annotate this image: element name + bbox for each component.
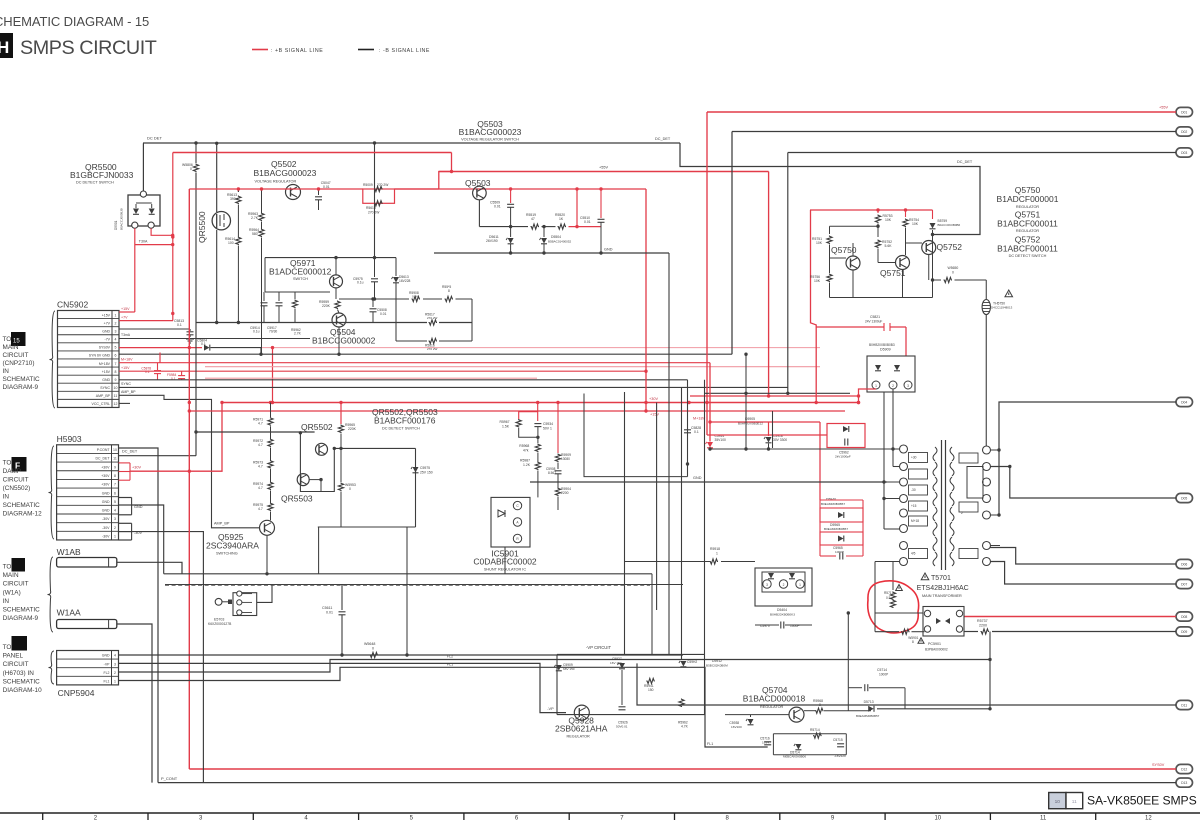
svg-text:TO: TO (3, 644, 12, 651)
svg-text:B1BACG000023: B1BACG000023 (459, 127, 522, 137)
svg-text:M+18V: M+18V (693, 417, 706, 421)
wire (261, 189, 263, 213)
svg-text:GND: GND (693, 476, 702, 480)
wire 573 gnd long (164, 573, 652, 575)
transistor Q5751 (896, 256, 910, 270)
wire red d5909 bottom (859, 389, 877, 403)
wire red C horiz (710, 421, 820, 423)
wire AMP_BP row11 (119, 395, 260, 528)
wire transformer left stubs (893, 448, 900, 450)
svg-text:SYNC: SYNC (121, 382, 131, 386)
resistor R5613 (237, 189, 239, 192)
transformer windings right (950, 447, 954, 461)
svg-text:+55V: +55V (1159, 106, 1168, 110)
wire red top Q5750 (810, 209, 933, 211)
connector oval D12 (1176, 764, 1193, 773)
svg-text:0.1: 0.1 (694, 430, 699, 434)
wire GND 253 (434, 252, 669, 254)
svg-text:D05: D05 (1181, 497, 1187, 501)
wire bridge bottom red left (134, 228, 136, 312)
wire (955, 279, 987, 281)
svg-text:C5611: C5611 (322, 606, 332, 610)
wire chain (270, 403, 272, 418)
wire red mid (439, 171, 769, 173)
svg-text:B1BACD000018: B1BACD000018 (743, 694, 806, 704)
svg-text:0.01: 0.01 (380, 312, 387, 316)
svg-text:FL1: FL1 (447, 662, 453, 666)
wire +7V row2 (119, 320, 173, 322)
svg-text:+15: +15 (911, 504, 917, 508)
zener D5714 (795, 744, 801, 750)
svg-text:GND: GND (102, 500, 110, 504)
svg-text:MAIN: MAIN (3, 572, 19, 579)
svg-text:CN5902: CN5902 (57, 300, 88, 310)
resistor R5616 (429, 338, 438, 343)
wire (456, 298, 473, 300)
wire 449 run (710, 448, 900, 450)
wire pink bus B (205, 377, 537, 379)
svg-text:-VP CIRCUIT: -VP CIRCUIT (586, 645, 611, 650)
svg-text:3: 3 (115, 329, 117, 333)
svg-text:4/5: 4/5 (911, 552, 916, 556)
svg-text:PC5901: PC5901 (928, 642, 941, 646)
svg-text:2: 2 (115, 321, 117, 325)
wire vertical (172, 153, 174, 321)
capacitor C5714 (848, 687, 862, 689)
svg-text:C5970: C5970 (760, 624, 770, 628)
svg-text:3: 3 (766, 583, 768, 587)
svg-text:2SC3940ARA: 2SC3940ARA (206, 541, 259, 551)
resistor R5965 (340, 403, 342, 425)
svg-text:SCHEMATIC: SCHEMATIC (3, 376, 41, 383)
wire vert 772 (772, 411, 774, 448)
wire vert 656 (656, 403, 658, 611)
wire VCC_CTRL row12 (119, 402, 130, 404)
wire -30V run (132, 532, 204, 783)
svg-text:QR5500: QR5500 (197, 211, 207, 243)
wire 341 run (396, 340, 427, 342)
svg-text:1: 1 (114, 535, 116, 539)
resistor W5648 (370, 652, 379, 657)
brace CNP5904 (49, 651, 55, 684)
transistor Q5752 (922, 241, 936, 255)
connector oval D03 (1176, 148, 1193, 157)
svg-text:W5648: W5648 (364, 642, 375, 646)
svg-text:SA-VK850EE SMPS: SA-VK850EE SMPS (1087, 794, 1197, 808)
zener D5611 (510, 227, 512, 237)
wire (829, 283, 831, 298)
wire red 189 run (189, 188, 362, 190)
resistor R5972 (268, 439, 273, 448)
wire Q5925 emitter (266, 535, 268, 574)
connector oval D06 (1176, 559, 1193, 568)
svg-text:+15V: +15V (121, 307, 130, 311)
svg-text:270 2W: 270 2W (427, 347, 438, 351)
wire vertical red (272, 348, 274, 403)
wire +15V row1 (119, 311, 135, 313)
wire Q5971 collector (335, 258, 337, 275)
svg-text:8: 8 (115, 370, 117, 374)
transistor QR5503 (297, 474, 309, 486)
svg-text:: +B SIGNAL LINE: : +B SIGNAL LINE (271, 48, 323, 54)
ic IC5901 box (491, 497, 530, 547)
resistor R5753 (877, 210, 879, 213)
svg-text:2200: 2200 (979, 624, 987, 628)
transistor Q5971 (330, 275, 343, 288)
svg-text:GND: GND (604, 248, 613, 252)
wire vert 681 (681, 387, 683, 660)
svg-text:DC DETECT SWITCH: DC DETECT SWITCH (1009, 254, 1047, 258)
wire E5703 (257, 585, 272, 603)
connector oval D02 (1176, 127, 1193, 136)
wire Q5504 emitter (338, 327, 340, 354)
wire vert 732 (731, 132, 733, 355)
resistor R5908 (412, 296, 421, 301)
zener G5938 (748, 719, 754, 725)
svg-text:D5713: D5713 (864, 700, 874, 704)
svg-text:SYN 6V GND: SYN 6V GND (89, 354, 111, 358)
svg-text:PANEL: PANEL (3, 653, 24, 660)
svg-text:DAMP: DAMP (3, 468, 21, 475)
svg-text:VOLTAGE REGULATOR: VOLTAGE REGULATOR (255, 180, 297, 184)
svg-text:4.7: 4.7 (258, 422, 263, 426)
resistor R5756 (827, 274, 832, 283)
wire +15V row8 (119, 370, 646, 372)
resistor R5974 (268, 482, 273, 491)
svg-text:25V 150: 25V 150 (420, 471, 433, 475)
svg-text:B0EAMM0B0B57: B0EAMM0B0B57 (856, 714, 880, 718)
svg-text:3: 3 (114, 517, 116, 521)
resistor W5806 (195, 143, 197, 163)
svg-text:SCHEMATIC: SCHEMATIC (3, 607, 41, 614)
diode C5804 (204, 345, 210, 351)
wire DC_DET step (680, 143, 980, 235)
svg-text:B0ACC0K0B0B6: B0ACC0K0B0B6 (938, 223, 961, 227)
svg-text:0.01: 0.01 (584, 220, 591, 224)
svg-text:REGULATOR: REGULATOR (760, 705, 784, 709)
svg-text:C5975: C5975 (420, 466, 430, 470)
wire red (395, 188, 439, 190)
wire red down (905, 327, 907, 356)
wire (829, 245, 831, 274)
wire (932, 230, 934, 240)
svg-text:E5703: E5703 (214, 618, 224, 622)
svg-text:12: 12 (1145, 816, 1152, 820)
svg-text:R5918: R5918 (710, 547, 720, 551)
capacitor C5821 (883, 323, 885, 331)
resistor pair R5009/R5613 box (363, 189, 395, 203)
svg-text:12: 12 (114, 402, 118, 406)
wire red bus A +30V (222, 402, 859, 404)
svg-text:Q5752: Q5752 (937, 242, 963, 252)
svg-text:270 2W: 270 2W (368, 211, 380, 215)
wire d5404 feeds (721, 561, 755, 563)
wire pink bus A (205, 366, 820, 368)
svg-text:SWITCHING: SWITCHING (216, 552, 238, 556)
capacitor C5716 (764, 741, 771, 743)
capacitor F5984 (181, 371, 183, 375)
svg-text:35V100: 35V100 (715, 438, 727, 442)
svg-text:2.7K: 2.7K (251, 216, 259, 220)
wire qr5503 down (320, 480, 322, 492)
wire box right (471, 299, 473, 341)
resistor W5650 (944, 277, 953, 282)
capacitor C5715 (837, 743, 844, 745)
wire to D07 (987, 562, 1177, 585)
wire c5914 bottom (709, 448, 711, 449)
transformer right pin boxes (959, 453, 978, 463)
svg-text:DC DETECT SWITCH: DC DETECT SWITCH (76, 181, 114, 185)
svg-text:47: 47 (531, 217, 535, 221)
resistor R5959 (335, 288, 337, 299)
wire to D05 (987, 467, 1177, 499)
capacitor C5926 (621, 670, 623, 705)
transistor Q5925 (260, 520, 275, 535)
svg-text:13080: 13080 (561, 457, 570, 461)
svg-text:B0HB20XB0B0K3: B0HB20XB0B0K3 (770, 613, 795, 617)
wire DC_DET vertical (195, 173, 197, 456)
svg-text:B5BAC01400052: B5BAC01400052 (548, 240, 572, 244)
svg-text:SWITCH: SWITCH (293, 277, 308, 281)
svg-text:C5821: C5821 (870, 315, 880, 319)
wire M+18V row7 (119, 362, 710, 364)
svg-text:GND: GND (102, 491, 110, 495)
svg-text:R5968: R5968 (519, 444, 529, 448)
wire base feed (196, 431, 315, 433)
svg-text:R5714: R5714 (810, 728, 820, 732)
capacitor C5828 (684, 429, 691, 431)
svg-text:10K: 10K (816, 241, 823, 245)
svg-text:8.567: 8.567 (548, 471, 556, 475)
svg-text:P.CONT: P.CONT (97, 448, 111, 452)
svg-text:9: 9 (115, 378, 117, 382)
wire vert 584 (584, 394, 644, 477)
svg-text:GND: GND (102, 654, 110, 658)
svg-text:SCHEMATIC: SCHEMATIC (3, 678, 41, 685)
wire q5704 row (725, 714, 789, 716)
svg-text:B1BACG000023: B1BACG000023 (254, 168, 317, 178)
svg-text:D09: D09 (1181, 630, 1187, 634)
svg-text:CIRCUIT: CIRCUIT (3, 477, 29, 484)
svg-text:C5934: C5934 (543, 422, 553, 426)
resistor R5973 (268, 460, 273, 469)
svg-text:9: 9 (114, 465, 116, 469)
wire to D11 (637, 663, 1176, 705)
svg-text:TO: TO (3, 460, 12, 467)
svg-text:R55*5: R55*5 (442, 285, 451, 289)
svg-text:1K: 1K (559, 217, 564, 221)
svg-text:FL1: FL1 (103, 679, 109, 683)
svg-text:B1GBCFJN0033: B1GBCFJN0033 (70, 170, 134, 180)
wire GND run (132, 505, 164, 574)
wire red bus C M+18V (709, 363, 711, 442)
capacitor C5914 (263, 292, 265, 301)
wire d5909 verticals (892, 389, 894, 467)
red annotation circle (868, 581, 919, 633)
svg-text:10K: 10K (912, 222, 919, 226)
svg-text:70/30: 70/30 (269, 330, 277, 334)
wire red vert left (811, 210, 817, 403)
svg-text:FL2: FL2 (447, 655, 453, 659)
svg-text:M+18V: M+18V (121, 357, 133, 361)
svg-text:QR5502: QR5502 (301, 422, 333, 432)
svg-text:1.5K: 1.5K (502, 425, 510, 429)
svg-text:0.4K: 0.4K (412, 295, 418, 299)
wire (237, 205, 239, 237)
wire qr5502 loop (300, 433, 334, 492)
transistor QR5500 mosfet (212, 212, 230, 230)
wire vert 624 (624, 392, 626, 654)
capacitor C5975 (374, 258, 376, 277)
svg-text:FL1: FL1 (707, 742, 713, 746)
wire row6 GND bus (119, 353, 732, 355)
svg-text:R5987: R5987 (520, 459, 530, 463)
svg-text:SYS0V: SYS0V (1152, 763, 1165, 767)
capacitor C5510 (600, 189, 602, 218)
svg-text:DC_DET: DC_DET (95, 457, 110, 461)
svg-text:CIRCUIT: CIRCUIT (3, 352, 29, 359)
svg-text:-7V: -7V (105, 338, 111, 342)
wire (625, 561, 710, 563)
svg-text:2: 2 (783, 583, 785, 587)
svg-text:4: 4 (114, 509, 116, 513)
zener D5504 (543, 227, 545, 237)
diode D5759 (932, 210, 934, 219)
svg-text:T30A: T30A (139, 240, 148, 244)
footer label SA-VK850EE SMPS (1049, 793, 1066, 809)
svg-text:2: 2 (892, 384, 894, 388)
svg-text:+15V: +15V (102, 370, 111, 374)
svg-text:R5967: R5967 (500, 420, 510, 424)
svg-text:+7V: +7V (121, 316, 128, 320)
wire th to transformer (985, 315, 987, 451)
svg-text:IN: IN (3, 368, 10, 375)
svg-text:REGULATOR: REGULATOR (1016, 205, 1040, 209)
wire (542, 226, 556, 228)
svg-text:24V 1300uF: 24V 1300uF (865, 320, 882, 324)
transistor Q5502 (286, 185, 301, 200)
svg-text:4.7K: 4.7K (681, 725, 689, 729)
svg-text:DIAGRAM-9: DIAGRAM-9 (3, 615, 39, 622)
svg-text:DC_DET: DC_DET (122, 450, 138, 454)
svg-text:SMPS CIRCUIT: SMPS CIRCUIT (20, 37, 157, 59)
wire vert sync 787 (787, 153, 789, 394)
svg-text:4.7: 4.7 (258, 465, 263, 469)
svg-text:4: 4 (114, 654, 116, 658)
svg-text:+15V: +15V (650, 413, 659, 417)
resistor R5918 (710, 559, 719, 564)
wire q5752 (905, 228, 907, 256)
resistor W5901 (901, 629, 910, 634)
wire P_CONT bus to D13 (158, 782, 1176, 784)
resistor R5717 (892, 562, 894, 591)
svg-text:VCC_CTRL: VCC_CTRL (92, 402, 111, 406)
connector oval D11 (1176, 700, 1193, 709)
wire long 584 (165, 584, 683, 586)
wire q5750 (830, 257, 847, 259)
svg-text:W1AA: W1AA (57, 608, 81, 618)
svg-text:-VP: -VP (547, 707, 554, 711)
svg-text:10: 10 (114, 386, 118, 390)
svg-text:390: 390 (230, 197, 236, 201)
svg-text:DIAGRAM-12: DIAGRAM-12 (3, 511, 43, 518)
wire (912, 631, 925, 633)
capacitor C5917 (278, 292, 280, 301)
wire -30V bracket (119, 522, 132, 524)
transformer windings left (933, 447, 937, 461)
wire Q5503 emitter (478, 200, 480, 227)
svg-text:5.6K: 5.6K (885, 244, 893, 248)
svg-text:GND: GND (134, 505, 143, 509)
svg-text:B0HF5UX0B3E12: B0HF5UX0B3E12 (738, 422, 763, 426)
svg-text:D04: D04 (1181, 401, 1187, 405)
svg-text:DIAGRAM-10: DIAGRAM-10 (3, 687, 43, 694)
svg-text:GND: GND (102, 509, 110, 513)
wire 585 dashed (165, 584, 650, 586)
connector oval D07 (1176, 579, 1193, 588)
wire bus east (439, 322, 472, 324)
wire to D03 (788, 152, 1176, 154)
svg-text:AMP_BP: AMP_BP (121, 390, 136, 394)
svg-text:D5912: D5912 (712, 659, 722, 663)
wire CNP FL1 row (119, 667, 768, 747)
svg-text:10K: 10K (885, 218, 892, 222)
svg-text:CHEMATIC DIAGRAM - 15: CHEMATIC DIAGRAM - 15 (0, 14, 149, 29)
svg-text:DC_DET: DC_DET (655, 137, 671, 141)
svg-text:D11: D11 (1181, 704, 1187, 708)
resistor R5987 (535, 462, 540, 471)
wire bridge top to DC_DET (142, 143, 144, 191)
svg-text:D5909: D5909 (880, 348, 891, 352)
svg-text:2.7K: 2.7K (294, 332, 302, 336)
wire 292 run (265, 291, 330, 293)
svg-text:+55V: +55V (599, 166, 608, 170)
resistor R5737 (981, 629, 990, 634)
resistor W5953 (340, 448, 342, 482)
bridge rectifier D5501 (128, 195, 160, 226)
zener C5912 (680, 661, 686, 667)
svg-text:1000P: 1000P (879, 673, 888, 677)
wire SYS0V row5 (119, 347, 202, 349)
wire red vertical main (188, 189, 190, 769)
label TO PANEL CIRCUIT (H6703) (12, 636, 28, 651)
capacitor C5878 (157, 363, 159, 370)
svg-text:1000P: 1000P (790, 624, 800, 628)
svg-text:B1ABCF000011: B1ABCF000011 (997, 244, 1058, 254)
wire vert 652 (651, 574, 653, 655)
resistor R5904 (555, 488, 560, 497)
wire red 226 (569, 226, 602, 228)
svg-text:16V100: 16V100 (731, 725, 742, 729)
wire Q5704 out up (989, 632, 991, 709)
svg-text:GND: GND (102, 378, 110, 382)
wire PC5901 to D09 with resistor R5737 (964, 631, 978, 633)
svg-text:7: 7 (114, 483, 116, 487)
resistor R5975 (268, 503, 273, 512)
svg-text:4.7: 4.7 (258, 443, 263, 447)
svg-text:0: 0 (190, 167, 192, 171)
resistor R5968 (535, 444, 540, 453)
wire vertical QR box to bus (318, 527, 320, 574)
svg-text:IN: IN (3, 598, 10, 605)
svg-text:220K: 220K (322, 304, 331, 308)
svg-text:B3PBA0000002: B3PBA0000002 (925, 648, 948, 652)
svg-text:-16V220: -16V220 (834, 754, 846, 758)
capacitor C5509 (510, 189, 512, 203)
transformer label (921, 573, 929, 580)
svg-text:K6XZ0000127B: K6XZ0000127B (208, 622, 232, 626)
wire (340, 434, 342, 449)
